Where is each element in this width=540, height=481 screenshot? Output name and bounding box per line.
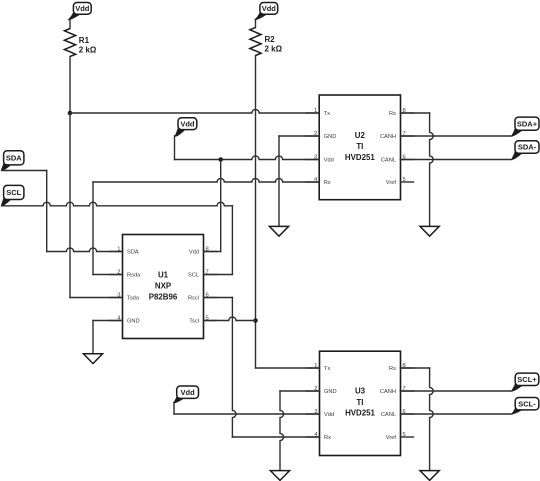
svg-text:5: 5 [206,315,209,321]
ground (U3 GND) [270,471,289,481]
wire U3 pin2 GND to corner [280,390,320,392]
wire to U3 pin1 Tx [256,367,320,369]
svg-text:SCL: SCL [6,188,21,197]
svg-text:SCL: SCL [188,273,199,279]
wire U2 GND drop [278,136,280,226]
svg-text:8: 8 [206,246,209,252]
wire SCL flag run (hops over 4 columns) [2,202,232,206]
output flag SDA- [512,141,539,160]
IC U1 NXP P82B96 [110,235,217,339]
svg-text:Rsda: Rsda [127,273,141,279]
svg-text:CANH: CANH [380,134,396,140]
wire Vdd row to U2 pin3 (hops over R2 and U2-GND columns) [175,156,320,160]
wire Vdd drop (U3) [173,402,175,414]
wire to U3 pin4 Rx [232,436,319,438]
wire R2 column down to U3.Tx row [255,56,257,369]
svg-text:SDA: SDA [6,154,22,163]
svg-text:TI: TI [356,398,363,407]
svg-text:SDA-: SDA- [518,143,537,152]
output flag SDA+ [512,117,539,136]
junction node R1/U2.Tx/U1.Tsda [68,111,73,116]
svg-text:2: 2 [117,269,120,275]
svg-text:6: 6 [206,292,209,298]
svg-text:CANL: CANL [381,158,396,164]
ground (U2 GND) [269,226,288,236]
svg-text:P82B96: P82B96 [149,292,178,301]
power flag Vdd (U1/U2 supply) [175,118,197,137]
svg-text:Vdd: Vdd [75,4,90,13]
svg-text:Vref: Vref [386,180,397,186]
svg-text:CANH: CANH [380,389,396,395]
wire U2 pin8 Rs to corner [401,112,430,114]
svg-text:7: 7 [206,269,209,275]
junction node R2/U1.Tscl/U3.Tx [253,318,258,323]
output flag SCL- [512,398,539,415]
input flag SDA [1,151,24,171]
svg-text:Rx: Rx [324,180,331,186]
svg-text:Rs: Rs [389,366,396,372]
svg-text:Rscl: Rscl [188,296,199,302]
svg-text:5: 5 [403,177,406,183]
svg-text:U1: U1 [158,270,169,279]
svg-text:Rs: Rs [389,111,396,117]
ground (U3 Rs) [420,471,439,481]
wire R1 column down to Tsda row [69,113,71,298]
wire U2 pin2 GND to corner [279,135,319,137]
ground (U2 Rs) [420,226,439,236]
svg-text:2 kΩ: 2 kΩ [265,45,283,54]
power flag Vdd (above R2) [255,3,278,20]
wire U2 pin6 CANL to SDA- flag [401,159,512,161]
wire SCL to U1 pin7 [204,274,233,276]
svg-text:1: 1 [314,108,317,114]
svg-text:3: 3 [117,292,120,298]
wire Rscl column drop (hop over U3 Vdd row) [232,298,236,438]
svg-text:Vdd: Vdd [180,119,195,128]
wire SDA flag to corner [2,170,47,172]
svg-text:Vdd: Vdd [262,4,277,13]
svg-text:3: 3 [314,154,317,160]
wire U1 pin6 Rscl to corner [204,297,233,299]
resistor R1 [64,29,75,57]
wire SDA drop [46,171,48,252]
svg-text:GND: GND [324,134,337,140]
svg-text:HVD251: HVD251 [345,409,375,418]
svg-text:5: 5 [403,432,406,438]
wire to U1 pin8 Vdd [204,251,221,253]
svg-text:Vdd: Vdd [181,388,196,397]
wire U2 pin7 CANH to SDA+ flag [401,135,512,137]
wire U3 pin6 CANL to SCL- flag [401,413,512,415]
svg-text:SCL-: SCL- [518,399,536,408]
wire U2.Rx row to Rsda column (hops over 3 columns) [93,178,319,182]
wire U3 Rs drop to ground (hops over CANH/CANL) [430,368,434,471]
svg-text:GND: GND [127,319,140,325]
wire Rsda column drop [92,182,94,275]
svg-text:GND: GND [324,389,337,395]
junction node Vdd/U1.Vdd [218,157,223,162]
wire U1 pin4 GND to corner [93,320,123,322]
svg-text:TI: TI [356,142,363,151]
wire Vdd drop to supply row [174,136,176,160]
wire U3 pin8 Rs to corner [401,367,430,369]
label R2 value [265,35,283,54]
wire U3 GND drop (hops over Vdd and Rx rows) [280,391,284,471]
IC U2 TI HVD251 [306,95,413,200]
resistor R2 [250,28,261,56]
svg-text:2 kΩ: 2 kΩ [79,46,97,55]
svg-text:Tscl: Tscl [189,319,199,325]
svg-text:R2: R2 [265,35,276,44]
svg-text:CANL: CANL [381,412,396,418]
svg-text:1: 1 [314,363,317,369]
svg-text:1: 1 [117,246,120,252]
svg-text:R1: R1 [79,36,90,45]
svg-text:Vdd: Vdd [324,158,334,164]
wire junction to U2 pin1 Tx (hop over R2 line) [70,109,319,113]
wire U2 Rs drop to ground (hops over CANH/CANL) [430,113,434,226]
svg-text:Tx: Tx [324,111,330,117]
IC U3 TI HVD251 [307,351,414,455]
label R1 value [79,36,97,55]
power flag Vdd (above R1) [68,3,91,20]
wire Vdd junction drop to U1 pin8 row [220,160,222,252]
wire Vdd to R2 top [255,19,257,27]
wire Vdd to R1 top [69,19,71,28]
svg-text:Vdd: Vdd [324,412,334,418]
svg-text:U3: U3 [355,387,366,396]
svg-text:SDA+: SDA+ [517,119,538,128]
svg-text:U2: U2 [355,131,366,140]
svg-text:NXP: NXP [155,282,171,291]
wire U1 pin5 Tscl to R2 column (hop over Rscl column) [204,317,256,321]
wire GND drop [92,321,94,354]
ground (U1 GND) [83,354,102,364]
input flag SCL [1,185,24,205]
power flag Vdd (U3 supply) [174,386,199,403]
wire to U1 pin3 Tsda [70,297,123,299]
svg-text:Vdd: Vdd [189,250,199,256]
svg-text:Vref: Vref [386,435,397,441]
svg-text:Tsda: Tsda [127,296,140,302]
wire Vdd row to U3 pin3 [174,413,320,415]
svg-text:Rx: Rx [324,435,331,441]
wire U3 pin7 CANH to SCL+ flag [401,390,512,392]
wire R1 bottom to junction [69,57,71,114]
svg-text:HVD251: HVD251 [345,153,375,162]
wire to U1 pin2 Rsda [93,274,123,276]
output flag SCL+ [512,373,539,391]
wire SDA to U1 pin1 (hops over R1 and Rsda columns) [47,248,123,252]
svg-text:SDA: SDA [127,250,139,256]
svg-text:Tx: Tx [324,366,330,372]
wire SCL drop [231,206,233,275]
svg-text:SCL+: SCL+ [517,375,537,384]
